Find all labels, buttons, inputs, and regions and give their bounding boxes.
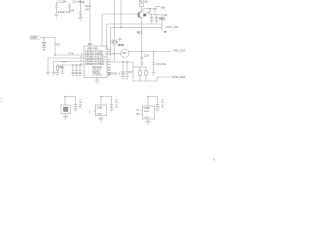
junction y51.5 x153.5 bbox=[153, 51, 155, 53]
ground bbox=[152, 73, 156, 76]
wire LS1 right to net bbox=[129, 51, 134, 53]
svg-text:C17: C17 bbox=[128, 70, 133, 74]
junction y62 x127 bbox=[126, 61, 128, 63]
svg-text:C14 20p: C14 20p bbox=[79, 99, 81, 108]
ground bbox=[146, 121, 151, 124]
svg-text:4.7K: 4.7K bbox=[68, 52, 74, 56]
resonator circuit 3: stub bbox=[148, 97, 158, 107]
resistor R9 top right bbox=[140, 4, 144, 12]
wire X1 bottom bbox=[100, 116, 102, 119]
svg-text:0.1uF: 0.1uF bbox=[58, 10, 65, 14]
transistor Q1 bbox=[137, 11, 144, 18]
svg-text:R9 10K: R9 10K bbox=[139, 0, 148, 4]
pin tick X1 left bbox=[94, 110, 96, 112]
IC right pin stubs lower bbox=[107, 68, 111, 76]
Q1 emitter arrow blob bbox=[143, 14, 146, 17]
wire Y1 bottom bbox=[65, 114, 67, 116]
svg-text:VOUT_EN: VOUT_EN bbox=[166, 25, 178, 29]
ground bbox=[75, 74, 79, 77]
junction y62 left caps bbox=[72, 64, 73, 65]
ground bbox=[74, 109, 78, 112]
junction y27 x121 bbox=[120, 27, 122, 29]
svg-text:1K: 1K bbox=[147, 13, 150, 15]
svg-text:XT1/P23: XT1/P23 bbox=[93, 74, 103, 76]
wire caps header y=14.5 bbox=[149, 9, 162, 31]
wire vertical x=111 IC pin to wire B bbox=[110, 28, 112, 57]
pin tick X2 left bbox=[141, 110, 143, 114]
wire cap tap drops bbox=[73, 65, 80, 70]
ground bbox=[78, 17, 83, 20]
junction rail x155 bbox=[154, 8, 155, 9]
svg-text:104: 104 bbox=[70, 8, 75, 12]
svg-text:GND: GND bbox=[144, 117, 149, 119]
junction GND branch bbox=[43, 37, 45, 39]
svg-text:+5V: +5V bbox=[161, 6, 166, 10]
svg-text:U1: U1 bbox=[88, 42, 92, 46]
wire vertical x=121 from top edge bbox=[120, 0, 122, 27]
ground bbox=[71, 74, 75, 77]
capacitor C16 bbox=[156, 104, 159, 109]
capacitor C4 bbox=[61, 67, 64, 72]
capacitor C1 bbox=[55, 2, 58, 14]
svg-text:455E: 455E bbox=[97, 114, 103, 116]
svg-text:CSB: CSB bbox=[97, 106, 103, 110]
wire left pin row1 bbox=[55, 54, 84, 56]
svg-text:C3: C3 bbox=[81, 0, 85, 4]
svg-text:AVSS_REF: AVSS_REF bbox=[172, 75, 186, 79]
ground bbox=[54, 14, 59, 19]
svg-text:10uF: 10uF bbox=[85, 4, 91, 8]
wire vertical x=102 from corner y14 down to IC top bbox=[101, 14, 103, 46]
junction crystal top 2 bbox=[100, 96, 102, 98]
svg-text:5V1: 5V1 bbox=[56, 43, 61, 47]
capacitor C9 bbox=[155, 15, 158, 21]
wire vertical bus x=90 top to IC bbox=[89, 0, 91, 46]
transistor Q5 circle bbox=[111, 39, 117, 45]
capacitor C5 bbox=[72, 70, 75, 74]
capacitor C8 bbox=[150, 15, 153, 21]
junction crystal top 1 bbox=[64, 96, 66, 98]
wire GND net bbox=[41, 38, 55, 56]
wire long y=62 bbox=[107, 61, 133, 63]
junction x113 y53.8 bbox=[114, 53, 115, 54]
svg-text:C18 104: C18 104 bbox=[161, 99, 163, 108]
IC U1 box bbox=[84, 46, 107, 78]
ground bbox=[95, 80, 100, 83]
junction crystal top 3 bbox=[147, 96, 149, 98]
resonator X2 box bbox=[143, 106, 155, 119]
ground bbox=[78, 74, 82, 77]
svg-text:BZ1: BZ1 bbox=[123, 53, 128, 55]
wire x=133 down and y=81 jog bbox=[133, 62, 171, 81]
capacitor C14 bbox=[74, 104, 77, 109]
IC U1 pin rows bbox=[85, 47, 105, 76]
capacitor C11 bbox=[152, 52, 155, 73]
GND flag bbox=[30, 36, 41, 39]
junction y51.5 x141.8 bbox=[141, 51, 143, 53]
resistor R11 bbox=[140, 67, 147, 81]
wire vertical x=108 IC pin to wire A bbox=[106, 24, 108, 49]
ground bbox=[99, 118, 104, 121]
svg-text:VDD VSS: VDD VSS bbox=[87, 47, 98, 50]
svg-text:455K: 455K bbox=[144, 111, 150, 113]
crystal Y1 inner bbox=[64, 107, 68, 111]
capacitor C13 bbox=[126, 62, 129, 76]
svg-text:GND: GND bbox=[31, 36, 37, 40]
ground bbox=[56, 73, 60, 76]
svg-text:P05/AN5 P15/BZ1: P05/AN5 P15/BZ1 bbox=[85, 63, 104, 66]
wire long y=51.5 bbox=[134, 51, 172, 53]
resonator X1 box bbox=[96, 105, 107, 116]
junction dots bbox=[43, 8, 156, 97]
IC right pin stubs upper bbox=[107, 49, 111, 64]
ground bbox=[150, 21, 153, 23]
ground bbox=[61, 72, 65, 75]
wire emitter down bbox=[141, 18, 143, 52]
capacitor C15 bbox=[110, 104, 113, 109]
left margin ticks bbox=[0, 98, 3, 102]
IC bottom ground stub bbox=[96, 78, 98, 80]
wire X2 bottom bbox=[147, 119, 149, 121]
buzzer LS1 circle bbox=[121, 49, 129, 57]
wire left pin row3 to x=53.5 ground bbox=[54, 62, 85, 73]
ground bbox=[52, 72, 56, 75]
wire collector to +5V rail bbox=[142, 6, 160, 12]
resistor R10 bbox=[133, 67, 141, 81]
svg-text:C1 104: C1 104 bbox=[58, 0, 67, 4]
tick net A bbox=[164, 31, 167, 33]
IC pin numbers right bbox=[105, 51, 112, 76]
zener D1 bbox=[42, 38, 45, 48]
junction x55 y55 bbox=[54, 54, 56, 56]
wire Q5 emitter down bbox=[113, 45, 115, 54]
svg-text:BAT54C 1 2 3: BAT54C 1 2 3 bbox=[109, 72, 126, 76]
ground bbox=[63, 116, 68, 119]
ground bbox=[121, 77, 125, 80]
svg-text:Q1: Q1 bbox=[164, 13, 168, 17]
junction y62 x123 bbox=[122, 61, 124, 63]
ground bbox=[42, 48, 46, 51]
svg-text:R12: R12 bbox=[137, 31, 143, 35]
IC pin numbers left bbox=[80, 54, 83, 66]
wire long A y=24 bbox=[107, 23, 163, 25]
capacitor C6 bbox=[75, 70, 78, 74]
svg-text:C19 104: C19 104 bbox=[156, 62, 166, 66]
svg-text:C16: C16 bbox=[144, 54, 149, 58]
resonator circuit 2: stub bbox=[101, 97, 112, 106]
svg-text:16V: 16V bbox=[85, 7, 90, 11]
capacitor C10 below junction x141.8 bbox=[140, 52, 143, 63]
crystal circuit 1: stub bbox=[65, 97, 76, 106]
svg-text:CSB: CSB bbox=[144, 106, 150, 110]
svg-text:GN: GN bbox=[136, 114, 140, 116]
ground bbox=[46, 72, 50, 75]
junction rail x150 bbox=[149, 8, 150, 9]
wire long B y=27 bbox=[111, 27, 163, 29]
wire left pin row2 to x=48 ground bbox=[48, 58, 84, 72]
svg-text:IN: IN bbox=[137, 110, 140, 112]
wire LS1 left to x=113 down bbox=[107, 54, 121, 62]
wire vertical x=115.5 from top edge to Q5 bbox=[113, 0, 115, 39]
svg-text:C15 104: C15 104 bbox=[115, 99, 117, 108]
ground bbox=[125, 77, 129, 80]
ground bbox=[110, 109, 114, 112]
wire left pin row4 cap rail bbox=[58, 65, 85, 66]
svg-text:VDD_OUT: VDD_OUT bbox=[173, 49, 186, 53]
capacitor C3 bbox=[79, 0, 82, 17]
capacitor C2 bbox=[68, 3, 71, 13]
capacitor C7 bbox=[79, 70, 82, 74]
ground bbox=[140, 63, 144, 66]
crystal Y1 box bbox=[61, 105, 71, 114]
ground bbox=[155, 21, 158, 23]
svg-text:Q5: Q5 bbox=[118, 37, 122, 41]
svg-text:8050: 8050 bbox=[118, 43, 125, 47]
ground bbox=[156, 109, 160, 112]
wire horizontal y=14 to transistor base bbox=[102, 13, 137, 15]
resistor R3 bbox=[56, 66, 59, 73]
capacitor C12 bbox=[122, 62, 125, 76]
wire x62.5 drop bbox=[62, 65, 64, 67]
